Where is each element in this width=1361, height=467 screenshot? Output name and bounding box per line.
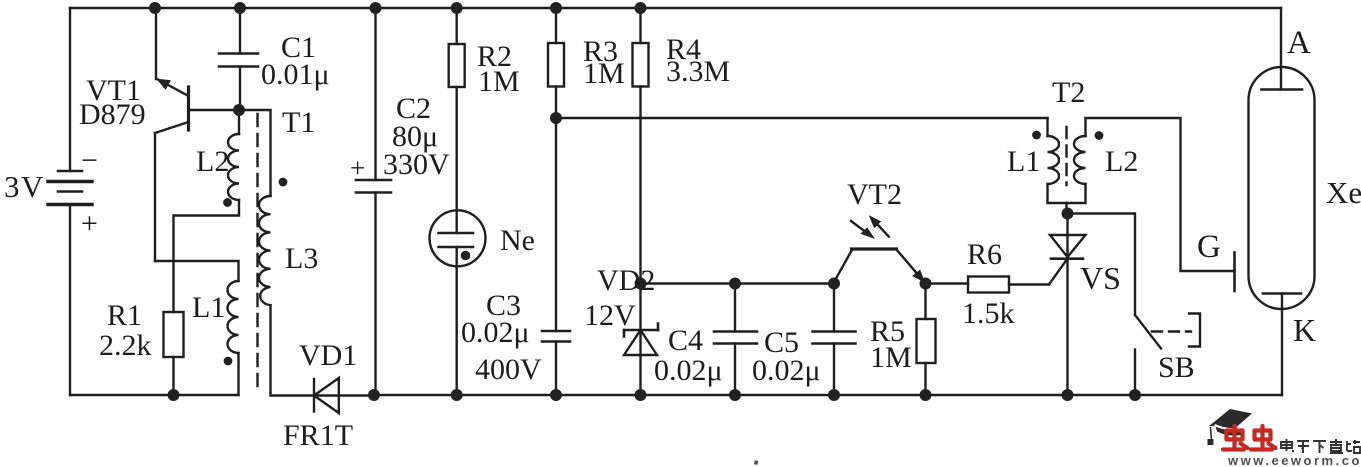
wire VT1 base to node A: [189, 109, 240, 111]
svg-text:1M: 1M: [870, 341, 912, 374]
svg-text:1.5k: 1.5k: [962, 297, 1015, 330]
junction top rail / C2: [370, 2, 382, 14]
inductor L1 (T1 primary): [155, 261, 239, 395]
svg-text:VS: VS: [1080, 260, 1121, 296]
L2 phasing dot: [223, 198, 232, 207]
svg-text:VD2: VD2: [597, 264, 655, 297]
L3 phasing dot: [279, 178, 288, 187]
capacitor C5 0.02u: [813, 284, 856, 396]
scan speck: [754, 460, 758, 465]
inductor L2 (T2 secondary): [1074, 118, 1235, 271]
svg-text:R6: R6: [967, 238, 1002, 271]
junction top rail / R4: [635, 2, 647, 14]
junction top rail / C1: [234, 2, 246, 14]
capacitor C2 80u 330V: [356, 8, 391, 395]
wire R3 bottom to T2 L1: [556, 117, 1048, 119]
wire bottom-left rail: [70, 394, 239, 396]
svg-text:0.02μ: 0.02μ: [461, 316, 530, 349]
wire top rail: [70, 7, 1281, 9]
svg-text:L2: L2: [196, 145, 229, 178]
svg-text:1M: 1M: [583, 57, 625, 90]
svg-text:D879: D879: [79, 98, 146, 131]
junction bottom rail / C5: [828, 389, 840, 401]
junction bottom rail / Ne: [451, 389, 463, 401]
zener diode VD2 12V: [624, 284, 658, 396]
svg-text:C4: C4: [668, 324, 703, 357]
junction bottom rail / VS cathode: [1062, 389, 1074, 401]
xenon flash tube Xe: [1249, 8, 1315, 395]
resistor R6 1.5k: [926, 277, 1050, 293]
svg-text:12V: 12V: [584, 299, 636, 332]
junction T2 bottom / VS anode: [1062, 208, 1074, 220]
resistor R2 1M: [449, 8, 465, 233]
svg-text:3V: 3V: [4, 169, 45, 204]
svg-text:400V: 400V: [475, 353, 542, 386]
transformer T2 core: [1065, 127, 1067, 185]
phototransistor VT2: [834, 215, 925, 282]
svg-text:K: K: [1293, 312, 1316, 348]
svg-text:VT2: VT2: [847, 178, 902, 211]
svg-text:0.02μ: 0.02μ: [752, 354, 821, 387]
wire main bottom rail: [374, 394, 1282, 396]
thyristor VS: [1049, 214, 1086, 396]
svg-text:T1: T1: [282, 106, 315, 139]
watermark logo eeworm: [1208, 409, 1361, 467]
svg-text:330V: 330V: [383, 148, 450, 181]
wire left rail (battery top lead): [69, 8, 71, 171]
junction top rail / R3: [550, 2, 562, 14]
resistor R5 1M: [917, 284, 936, 396]
wire 12V node line: [641, 282, 835, 284]
svg-text:2.2k: 2.2k: [99, 329, 152, 362]
svg-text:Ne: Ne: [500, 224, 535, 257]
capacitor C3 0.02u 400V: [542, 118, 570, 395]
junction VD1-C2 bottom node: [368, 389, 380, 401]
battery GB 3V: [48, 171, 92, 205]
svg-text:Xe: Xe: [1326, 175, 1361, 210]
junction top rail / VT1 emitter: [149, 2, 161, 14]
L1 (T2) phasing dot: [1032, 131, 1041, 140]
wire VT1 collector down: [154, 133, 156, 261]
inductor L1 (T2 primary): [1048, 118, 1086, 203]
neon lamp Ne: [430, 210, 486, 395]
svg-text:A: A: [1287, 25, 1311, 61]
wire VT1 emitter to top rail: [155, 8, 157, 79]
svg-text:SB: SB: [1158, 351, 1195, 384]
svg-text:T2: T2: [1052, 76, 1085, 109]
svg-text:−: −: [81, 144, 98, 177]
logo text chongchong (red): [1223, 426, 1276, 450]
node A junction (base/C1/L2/L3): [233, 104, 245, 116]
svg-text:0.02μ: 0.02μ: [654, 354, 723, 387]
junction C5/VT2 collector: [828, 278, 840, 290]
junction bottom rail / C3: [550, 389, 562, 401]
junction C4 top: [729, 278, 741, 290]
junction VT2 emitter/R5/R6: [920, 278, 932, 290]
svg-text:R1: R1: [107, 299, 142, 332]
svg-text:FR1T: FR1T: [283, 419, 353, 452]
wire battery bottom lead: [69, 205, 71, 396]
svg-text:0.01μ: 0.01μ: [261, 58, 330, 91]
logo text dianzixiazaizhan (black): [1281, 439, 1360, 453]
svg-text:+: +: [350, 153, 365, 183]
svg-text:L3: L3: [285, 242, 318, 275]
capacitor C1 0.01u: [219, 8, 258, 110]
logo graduation cap: [1208, 409, 1253, 445]
L2 (T2) phasing dot: [1095, 131, 1104, 140]
svg-text:L2: L2: [1105, 145, 1138, 178]
wire T2 bottom to VS and SB: [1067, 203, 1136, 315]
junction bottom rail / VD2: [635, 389, 647, 401]
capacitor C4 0.02u: [714, 284, 757, 396]
inductor L2 (T1 feedback winding): [174, 110, 240, 312]
L1 phasing dot: [224, 357, 233, 366]
svg-text:3.3M: 3.3M: [666, 55, 730, 88]
svg-text:www.eeworm.com: www.eeworm.com: [1227, 453, 1361, 467]
junction R1-bottom rail: [168, 389, 180, 401]
junction top rail / R2: [451, 2, 463, 14]
resistor R4 3.3M: [633, 8, 649, 284]
inductor L3 (T1 secondary): [239, 110, 374, 396]
switch SB: [1135, 314, 1200, 396]
svg-text:G: G: [1197, 229, 1221, 265]
transistor VT1 D879: [155, 79, 189, 134]
diode VD1 FR1T: [314, 378, 339, 413]
transformer T1 core: [256, 114, 258, 392]
junction SB bottom rail: [1129, 389, 1141, 401]
svg-text:L1: L1: [192, 291, 225, 324]
resistor R3 1M: [548, 8, 564, 118]
resistor R1 2.2k: [164, 312, 184, 395]
trigger electrode G: [1233, 253, 1236, 292]
svg-text:L1: L1: [1007, 145, 1040, 178]
svg-text:+: +: [81, 207, 98, 240]
svg-text:VD1: VD1: [299, 339, 357, 372]
junction R3/C3/T2 node: [550, 112, 562, 124]
junction bottom rail / C4: [729, 389, 741, 401]
node VD2 junction: [635, 278, 647, 290]
junction bottom rail / R5: [920, 389, 932, 401]
svg-text:1M: 1M: [478, 65, 520, 98]
